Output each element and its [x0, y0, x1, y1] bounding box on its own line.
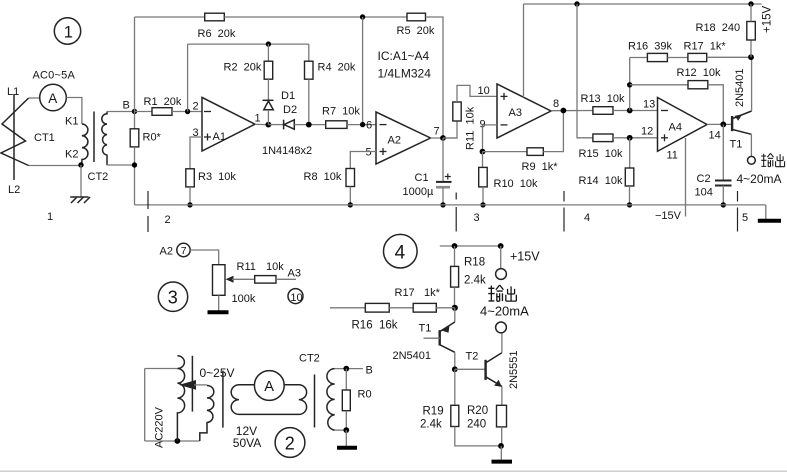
- junction pin7 node: [440, 135, 446, 141]
- resistor R16 inset: [365, 303, 389, 312]
- wire to D2: [268, 124, 283, 126]
- svg-text:3: 3: [474, 212, 480, 224]
- op-amp A1: [202, 97, 255, 151]
- ammeter A inset: [254, 371, 284, 401]
- resistor R18: [747, 22, 756, 41]
- svg-text:A: A: [48, 91, 57, 106]
- wire R11 top to pin10: [457, 85, 497, 102]
- wire R11 to A3: [276, 278, 296, 280]
- wire pot bottom: [218, 295, 220, 311]
- diode D1: [263, 100, 274, 124]
- wire R7 to pin6: [347, 124, 376, 126]
- svg-text:2N5401: 2N5401: [393, 350, 432, 362]
- label shuchu main: [761, 153, 784, 166]
- junction pin14 node: [720, 122, 726, 128]
- svg-text:R11: R11: [237, 261, 256, 273]
- wire B vertical bus: [134, 17, 136, 129]
- wire R2 top lead: [267, 44, 269, 61]
- resistor R3: [186, 169, 195, 187]
- resistor R1: [152, 108, 172, 116]
- wire primary bottom: [145, 440, 200, 442]
- svg-text:R10 10k: R10 10k: [494, 178, 539, 190]
- transistor T1 2N5401: [732, 111, 752, 134]
- wire to ground inset2: [345, 430, 347, 446]
- junction R14 rail: [627, 202, 632, 207]
- wire R17 to node inset: [436, 307, 455, 309]
- section marker circle 1: [54, 18, 80, 44]
- svg-text:R0*: R0*: [143, 132, 162, 144]
- svg-text:7: 7: [434, 126, 440, 138]
- resistor R11 inset: [255, 276, 276, 284]
- wire A4 output: [707, 123, 732, 125]
- svg-text:R8 10k: R8 10k: [304, 171, 342, 183]
- tap arrow variac: [179, 380, 207, 390]
- svg-text:R1 20k: R1 20k: [144, 96, 182, 108]
- svg-text:13: 13: [643, 99, 655, 111]
- wire CT2 bottom: [335, 429, 347, 431]
- svg-text:K1: K1: [65, 116, 78, 128]
- wire bottom rail: [135, 204, 766, 206]
- winding K1-K2: [82, 124, 88, 165]
- wire pin3 to R3: [190, 137, 202, 169]
- junction R18 top: [748, 1, 753, 6]
- wire ground stub inset4: [500, 446, 502, 460]
- divider section 3: [455, 193, 457, 232]
- wire CT2 top to B node: [107, 111, 135, 113]
- svg-text:R11 10k: R11 10k: [465, 106, 477, 150]
- svg-text:R6 20k: R6 20k: [198, 28, 236, 40]
- svg-text:6: 6: [366, 120, 372, 132]
- junction R6-R5-pin6: [360, 14, 365, 19]
- junction A1 output node: [266, 122, 272, 128]
- wire R0 bottom lead: [345, 411, 347, 430]
- transformer CT1 zigzag core: [1, 98, 29, 166]
- svg-text:R16 16k: R16 16k: [352, 320, 398, 332]
- resistor R9: [527, 148, 543, 156]
- svg-text:14: 14: [709, 130, 721, 142]
- capacitor C2: [715, 181, 732, 186]
- svg-text:1/4LM324: 1/4LM324: [378, 67, 432, 81]
- svg-text:4: 4: [584, 212, 590, 224]
- junction K2 bottom: [78, 162, 83, 167]
- wire zigzag top to ammeter: [29, 97, 40, 99]
- svg-text:2.4k: 2.4k: [464, 275, 486, 287]
- wire R14 bottom: [629, 186, 631, 205]
- wire top rail +15V: [524, 3, 762, 5]
- junction pin13: [627, 108, 633, 114]
- resistor R19: [451, 405, 459, 426]
- divider section 5: [737, 191, 739, 232]
- svg-text:12: 12: [641, 126, 653, 138]
- wire T1 collector down: [750, 134, 752, 156]
- svg-text:T1: T1: [419, 323, 432, 335]
- svg-text:C2: C2: [697, 173, 711, 185]
- svg-text:CT2: CT2: [88, 171, 109, 183]
- wire R18 top lead inset: [454, 246, 456, 266]
- wire R3 bottom: [189, 187, 191, 205]
- ground bar right end: [758, 219, 781, 223]
- junction pin12: [627, 135, 633, 141]
- wire top rail inset4: [440, 245, 501, 247]
- divider section 2: [147, 191, 149, 232]
- resistor R13: [593, 107, 613, 115]
- resistor R15: [593, 134, 613, 142]
- wire feedback top run: [188, 43, 309, 45]
- wire CT2 top to B: [335, 368, 363, 370]
- svg-text:2.4k: 2.4k: [420, 419, 442, 431]
- wire R18 bottom lead inset: [454, 287, 456, 308]
- resistor R18 inset: [451, 266, 459, 287]
- svg-text:2N5551: 2N5551: [508, 350, 520, 389]
- junction T1 emitter node inset: [452, 305, 458, 311]
- svg-text:R2 20k: R2 20k: [224, 62, 262, 74]
- wire to R16: [630, 57, 648, 59]
- wire R13 to pin13: [613, 110, 658, 112]
- svg-text:10k: 10k: [266, 261, 284, 273]
- svg-text:R16 39k: R16 39k: [628, 41, 673, 53]
- resistor R0: [130, 129, 139, 147]
- svg-text:+15V: +15V: [510, 250, 540, 264]
- junction R10 rail: [480, 202, 485, 207]
- svg-text:R14 10k: R14 10k: [579, 175, 624, 187]
- svg-text:1: 1: [64, 24, 73, 42]
- junction R3 rail: [187, 202, 192, 207]
- ammeter A: [40, 84, 67, 111]
- wire R0 top lead: [345, 369, 347, 390]
- wire R14 top: [629, 138, 631, 168]
- wire C2 bottom: [722, 186, 724, 205]
- svg-text:4: 4: [395, 243, 406, 264]
- svg-text:R18 240: R18 240: [696, 22, 741, 34]
- terminal output inset: [496, 322, 507, 333]
- svg-text:1000µ: 1000µ: [403, 186, 434, 198]
- svg-text:B: B: [123, 100, 130, 112]
- resistor R20: [497, 405, 507, 427]
- wire base T2 inset: [455, 368, 486, 370]
- wire R19 bottom to ground node: [455, 427, 501, 446]
- svg-text:4~20mA: 4~20mA: [480, 304, 529, 319]
- svg-text:K2: K2: [65, 149, 78, 161]
- ground bar inset4: [492, 460, 513, 464]
- svg-text:R17: R17: [395, 287, 415, 299]
- wire A2 output: [431, 137, 458, 139]
- junction R0 bottom inset: [343, 427, 349, 433]
- winding CT2 secondary: [102, 112, 107, 166]
- resistor R12: [688, 81, 708, 89]
- svg-text:R17 1k*: R17 1k*: [684, 41, 727, 53]
- svg-text:1: 1: [47, 211, 53, 223]
- label shuchu inset: [488, 285, 516, 301]
- resistor R7: [326, 121, 347, 129]
- svg-text:L2: L2: [8, 184, 20, 196]
- core CT2 inset: [314, 375, 316, 428]
- section marker circle 3: [158, 282, 187, 311]
- svg-text:R5 20k: R5 20k: [397, 25, 435, 37]
- node B: [132, 109, 137, 114]
- svg-text:R4 20k: R4 20k: [318, 62, 356, 74]
- svg-text:R12 10k: R12 10k: [677, 67, 722, 79]
- resistor R10: [479, 167, 488, 187]
- svg-text:11: 11: [667, 150, 678, 162]
- wire R1: [135, 111, 153, 113]
- junction B inset: [343, 366, 349, 372]
- wire R5 right down to pin7 node: [426, 17, 444, 138]
- svg-text:CT2: CT2: [299, 353, 320, 365]
- svg-text:7: 7: [181, 245, 187, 257]
- winding CT2 secondary inset: [327, 369, 335, 430]
- wire pin7 to pot: [190, 250, 219, 265]
- svg-text:D1: D1: [281, 90, 295, 102]
- svg-text:10: 10: [478, 85, 490, 97]
- bottom page edge line: [0, 470, 787, 472]
- wire K2 node down to ground: [80, 165, 82, 197]
- svg-text:C1: C1: [415, 172, 429, 184]
- junction T1 collector T2 base: [452, 366, 458, 372]
- winding T2 primary inset: [200, 386, 214, 441]
- svg-text:5: 5: [742, 212, 748, 224]
- svg-text:D2: D2: [283, 104, 297, 116]
- svg-text:R18: R18: [464, 257, 485, 269]
- svg-text:2: 2: [165, 214, 171, 226]
- wire R12 run: [630, 84, 688, 86]
- junction R18 top inset: [452, 243, 458, 249]
- svg-text:R13 10k: R13 10k: [581, 93, 626, 105]
- wire A1 output: [255, 123, 268, 125]
- svg-text:R15 10k: R15 10k: [579, 148, 624, 160]
- terminal +15V inset: [496, 269, 507, 280]
- potentiometer body 100k: [213, 265, 226, 296]
- junction R0 bottom: [132, 162, 137, 167]
- wire R9 to pin8 node: [543, 111, 563, 152]
- junction pin6: [360, 122, 365, 127]
- circled pin 7: [177, 243, 190, 257]
- wire primary feed: [145, 368, 178, 370]
- wire R18 top: [750, 4, 752, 22]
- wire R17 to T1 emitter node: [707, 56, 751, 58]
- resistor R8: [346, 169, 355, 187]
- wire A3 output: [551, 110, 593, 112]
- svg-text:104: 104: [695, 187, 713, 199]
- core 12V transformer: [222, 371, 224, 428]
- junction C2 rail: [721, 202, 726, 207]
- wire R6 to R5: [224, 16, 407, 18]
- svg-text:AC220V: AC220V: [154, 406, 166, 448]
- svg-text:A4: A4: [669, 122, 682, 134]
- wire R16 to R17: [667, 57, 688, 59]
- resistor R11: [453, 102, 461, 121]
- svg-text:CT1: CT1: [34, 132, 55, 144]
- winding variac primary: [177, 356, 184, 441]
- svg-text:R0: R0: [358, 389, 372, 401]
- svg-text:T1: T1: [730, 139, 743, 151]
- wire rail end down: [765, 205, 767, 220]
- wire pin11 to -15V: [685, 138, 687, 217]
- ground bar inset3: [208, 310, 229, 314]
- svg-text:−15V: −15V: [655, 210, 682, 222]
- resistor R6: [205, 13, 225, 21]
- diode D2: [284, 120, 295, 130]
- wire zigzag bottom to K2 node: [29, 165, 81, 167]
- wire pin5 to R8: [350, 152, 376, 169]
- section marker circle 2: [275, 428, 305, 458]
- wire R10 top: [482, 152, 484, 168]
- wire primary left down: [144, 369, 146, 442]
- wire T1 emitter up: [751, 57, 753, 111]
- svg-text:4~20mA: 4~20mA: [737, 172, 782, 186]
- wire R15 branch vertical: [577, 4, 593, 138]
- junction pin2: [185, 109, 190, 114]
- wire C2 top lead: [722, 124, 724, 180]
- wire pin9 to R9/R10 node: [483, 125, 498, 152]
- ground earth symbol: [70, 197, 90, 203]
- resistor R0 inset: [342, 390, 350, 411]
- wire R4 top lead: [308, 44, 310, 61]
- resistor R16: [647, 53, 667, 61]
- svg-text:A2: A2: [388, 135, 401, 147]
- wire pin7 down to C1: [442, 138, 444, 182]
- resistor R2: [264, 61, 273, 79]
- wire pin13 node up to R16/R12: [629, 58, 631, 111]
- svg-text:1k*: 1k*: [424, 287, 441, 299]
- svg-text:A: A: [264, 379, 274, 395]
- wire R16 input stub: [330, 307, 365, 309]
- capacitor C1: [436, 174, 452, 188]
- circled pin 10: [288, 289, 303, 304]
- svg-text:B: B: [366, 365, 373, 377]
- svg-text:50VA: 50VA: [233, 436, 261, 450]
- svg-text:L1: L1: [7, 86, 19, 98]
- pot wiper arrow: [226, 276, 255, 283]
- wire C1 bottom: [442, 187, 444, 205]
- ground bar inset2: [337, 446, 357, 450]
- junction pin8: [561, 108, 567, 114]
- op-amp A4: [658, 98, 708, 152]
- resistor R4: [305, 61, 314, 79]
- wire pin7 to R11: [443, 121, 457, 138]
- winding 12V secondary loop: [231, 385, 306, 415]
- wire top rail y17: [135, 16, 205, 18]
- wire R0 bottom: [134, 147, 136, 205]
- svg-text:R19: R19: [423, 406, 444, 418]
- terminal output circle: [748, 156, 756, 164]
- wire R15 to pin12: [613, 137, 658, 139]
- junction primary bottom: [175, 438, 181, 444]
- wire R16 to R17 inset: [389, 307, 413, 309]
- resistor R5: [407, 13, 426, 21]
- svg-text:A3: A3: [509, 107, 522, 119]
- op-amp A3: [497, 84, 551, 138]
- svg-text:A3: A3: [288, 268, 301, 280]
- wire L1-L2 primary conductor: [13, 94, 15, 180]
- svg-text:2: 2: [193, 101, 199, 113]
- svg-text:A1: A1: [213, 131, 226, 143]
- core variac: [191, 356, 193, 412]
- junction T1 emitter R17 R18: [748, 54, 754, 60]
- svg-text:IC:A1~A4: IC:A1~A4: [378, 49, 430, 63]
- resistor R17 inset: [413, 303, 436, 312]
- junction C1 rail: [440, 202, 445, 207]
- svg-text:8: 8: [553, 98, 559, 110]
- wire R12 to pin14 node: [708, 85, 724, 125]
- junction +15V branch: [498, 243, 504, 249]
- wire R1 to pin2: [172, 111, 202, 113]
- wire R4 bottom lead: [308, 79, 310, 124]
- op-amp A2: [376, 112, 431, 164]
- junction R2 top: [266, 41, 271, 46]
- svg-text:2N5401: 2N5401: [734, 68, 746, 107]
- wire pin2 feedback vertical: [187, 44, 189, 111]
- wire R2 bottom to D1: [267, 79, 269, 100]
- svg-text:3: 3: [168, 288, 178, 308]
- wire R19 top lead: [454, 369, 456, 405]
- svg-text:100k: 100k: [232, 293, 256, 305]
- junction D2-R4-R7: [306, 122, 312, 128]
- wire node to R9: [483, 151, 528, 153]
- svg-text:T2: T2: [466, 351, 479, 363]
- svg-text:240: 240: [467, 419, 486, 431]
- svg-text:0~25V: 0~25V: [200, 366, 235, 380]
- wire ammeter to K1 winding: [66, 98, 82, 125]
- svg-text:R20: R20: [467, 405, 488, 417]
- wire R10 bottom: [482, 187, 484, 205]
- resistor R17: [688, 53, 707, 61]
- divider section 4: [563, 191, 565, 232]
- svg-text:R7 10k: R7 10k: [322, 106, 360, 118]
- wire R20 bottom lead: [501, 427, 503, 446]
- wire A3 power pin to +15V rail: [523, 4, 525, 98]
- transistor T1 inset: [424, 308, 455, 370]
- svg-text:5: 5: [366, 147, 372, 159]
- svg-text:+15V: +15V: [762, 5, 774, 33]
- svg-text:R3 10k: R3 10k: [198, 171, 236, 183]
- junction R8 rail: [348, 202, 353, 207]
- wire pin6 vertical: [362, 17, 364, 125]
- wire R18 bottom lead: [750, 40, 752, 57]
- wire D2 to R7 node: [294, 124, 325, 126]
- junction R9-R10-pin9: [480, 149, 486, 155]
- svg-text:1N4148x2: 1N4148x2: [262, 145, 312, 157]
- resistor R14: [625, 168, 634, 186]
- transistor T2 inset: [486, 333, 502, 406]
- section marker circle 4: [384, 234, 418, 268]
- svg-text:R9 1k*: R9 1k*: [522, 161, 559, 173]
- junction R15 branch: [574, 1, 579, 6]
- wire R8 bottom: [349, 187, 351, 205]
- junction R12 tap: [627, 82, 632, 87]
- svg-text:1: 1: [255, 113, 261, 125]
- wire CT2 bottom to R0 bottom node: [107, 164, 135, 166]
- junction ground node inset4: [498, 443, 504, 449]
- svg-text:2: 2: [285, 434, 295, 454]
- transformer CT2 core: [93, 112, 95, 163]
- wire +15V terminal lead: [500, 246, 502, 269]
- svg-text:AC0~5A: AC0~5A: [33, 70, 76, 82]
- svg-text:10: 10: [290, 292, 302, 304]
- svg-text:A2: A2: [160, 246, 173, 258]
